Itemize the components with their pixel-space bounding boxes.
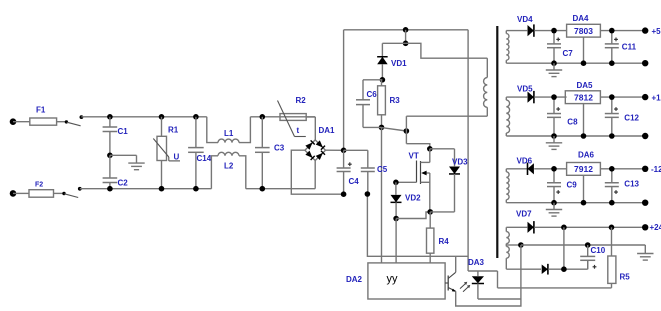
capacitor C2: [103, 155, 129, 188]
svg-text:7912: 7912: [574, 164, 593, 174]
svg-text:+5: +5: [652, 27, 661, 36]
capacitor C1: [103, 117, 129, 156]
diode VD1: [377, 43, 407, 80]
node C2 bottom: [107, 186, 113, 192]
svg-text:VD2: VD2: [405, 194, 421, 203]
diode VD3: [430, 149, 468, 212]
wire DC minus path: [367, 194, 468, 256]
capacitor C6: [356, 80, 377, 128]
node VD1 rail: [403, 27, 409, 33]
wire DA2 pin1: [381, 127, 383, 263]
zener VD2: [391, 182, 422, 218]
node row A: [561, 266, 567, 272]
svg-text:L2: L2: [224, 162, 234, 171]
node C1-C2 mid: [107, 153, 136, 159]
svg-text:C10: C10: [591, 246, 606, 255]
wire snubber return: [406, 116, 429, 149]
svg-text:C2: C2: [118, 179, 129, 188]
opto LED DA3: [468, 258, 498, 299]
wire top rail right: [250, 116, 315, 118]
wire LED box bottom: [478, 298, 521, 300]
resistor R5: [608, 227, 630, 288]
wire top rail left: [81, 116, 206, 118]
svg-text:R2: R2: [296, 96, 307, 105]
input terminal N: [10, 190, 29, 197]
svg-text:F1: F1: [36, 106, 46, 115]
node R1 bottom: [159, 186, 165, 192]
resistor R3: [378, 80, 401, 128]
wire R5 return: [498, 287, 612, 289]
switch S1: [65, 115, 84, 126]
node C10 top: [585, 242, 591, 248]
fuse F2: [29, 182, 64, 198]
transformer core: [496, 26, 498, 258]
svg-text:VD7: VD7: [516, 210, 532, 219]
svg-text:VT: VT: [409, 152, 419, 161]
capacitor C3: [255, 117, 285, 189]
capacitor C14: [188, 117, 212, 189]
node VD2 top: [393, 180, 399, 186]
node w4 tap: [518, 242, 524, 248]
svg-text:R1: R1: [168, 126, 179, 135]
transformer primary: [484, 58, 488, 116]
svg-text:C5: C5: [377, 165, 388, 174]
svg-text:R4: R4: [439, 237, 450, 246]
wire +310V riser: [343, 30, 345, 151]
earth ground: [128, 155, 144, 169]
wire bottom rail right: [246, 188, 315, 190]
svg-text:VD4: VD4: [517, 15, 533, 24]
svg-text:F2: F2: [35, 182, 43, 189]
thermistor R2: [278, 96, 316, 137]
fuse F1: [30, 106, 66, 126]
wire VD1 stub: [405, 30, 407, 44]
wire row A right: [548, 268, 588, 270]
svg-text:R5: R5: [620, 273, 631, 282]
svg-text:DA4: DA4: [573, 14, 590, 23]
svg-text:C14: C14: [197, 154, 212, 163]
wire LED box right: [497, 271, 499, 288]
svg-text:t: t: [297, 126, 300, 135]
diode VD8: [542, 264, 548, 275]
wire bridge bottom to rail: [314, 161, 316, 189]
wire +24 rail: [534, 226, 645, 228]
node VD1 top: [382, 41, 408, 47]
wire VD2 to source: [396, 212, 430, 219]
wire emitter: [456, 291, 521, 306]
svg-text:DA1: DA1: [319, 126, 336, 135]
node C5 bottom: [365, 191, 371, 197]
svg-text:7803: 7803: [574, 26, 593, 36]
svg-text:DA2: DA2: [346, 275, 363, 284]
wire DA2 pin2: [395, 219, 397, 263]
inductor L2: [211, 152, 245, 188]
node C1 top: [107, 114, 113, 120]
inductor L1: [207, 117, 251, 143]
wire R2 to bridge: [314, 117, 316, 140]
svg-text:-12: -12: [651, 165, 661, 174]
output row +12 (winding, diode VD5, regulator DA5 7812, C8, C12): [506, 81, 661, 149]
switch S2: [62, 187, 81, 198]
svg-text:+12: +12: [652, 93, 661, 102]
svg-text:VD3: VD3: [452, 158, 468, 167]
svg-text:DA6: DA6: [578, 151, 595, 160]
wire link 563: [563, 227, 565, 269]
wire collector: [455, 256, 457, 272]
node VD7-C10 link top: [561, 225, 567, 231]
svg-text:C1: C1: [118, 127, 129, 136]
wire tap riser: [520, 245, 522, 299]
capacitor C4: [337, 150, 360, 194]
node drain: [427, 146, 433, 152]
svg-text:L1: L1: [224, 129, 234, 138]
wire top mid rail: [344, 29, 469, 31]
node C14 top: [193, 114, 199, 120]
svg-text:7812: 7812: [574, 93, 593, 103]
svg-text:U: U: [174, 153, 180, 162]
wire diode row A: [506, 268, 541, 270]
svg-text:VD6: VD6: [517, 157, 533, 166]
svg-text:уу: уу: [387, 273, 399, 285]
node VD2 bottom: [393, 216, 399, 222]
resistor R4: [427, 212, 450, 263]
node C6 R3 bottom: [363, 125, 406, 131]
svg-text:VD1: VD1: [391, 59, 407, 68]
node C3 bottom: [260, 186, 266, 192]
node R5 top: [609, 225, 615, 231]
node C3 top: [260, 114, 266, 120]
phototransistor: [445, 272, 456, 291]
varistor R1: [153, 117, 180, 189]
wire w4 tap: [506, 244, 521, 246]
wire bridge minus loop: [291, 150, 343, 194]
transistor VT: [409, 152, 430, 212]
svg-text:DA3: DA3: [468, 258, 485, 267]
output +24 terminal: [642, 223, 661, 232]
svg-text:+24: +24: [650, 223, 661, 232]
svg-text:C12: C12: [624, 113, 639, 122]
svg-text:VD5: VD5: [517, 84, 533, 93]
wire gate: [396, 181, 417, 183]
node R1 top: [159, 114, 165, 120]
svg-text:C9: C9: [567, 181, 578, 190]
capacitor C10: [580, 245, 606, 269]
svg-text:C7: C7: [563, 49, 574, 58]
svg-text:C3: C3: [274, 144, 285, 153]
diode VD7: [506, 210, 534, 234]
ic DA2: [346, 263, 445, 299]
svg-text:C6: C6: [367, 90, 378, 99]
wire bridge plus: [326, 149, 344, 151]
svg-text:R3: R3: [390, 96, 401, 105]
svg-text:C13: C13: [624, 180, 639, 189]
svg-text:C8: C8: [567, 118, 578, 127]
wire right long vertical: [467, 30, 469, 271]
capacitor C5: [344, 150, 388, 194]
wire drain: [429, 149, 431, 163]
ground row4: [637, 245, 653, 260]
node source: [427, 209, 433, 215]
node snubber return: [404, 128, 410, 134]
wire clamp to primary top: [406, 43, 488, 58]
node C4 top: [341, 148, 347, 154]
input terminal L: [10, 118, 30, 125]
node C6 R3 top: [363, 77, 385, 83]
svg-text:DA5: DA5: [577, 81, 594, 90]
svg-text:C4: C4: [349, 177, 360, 186]
svg-text:C11: C11: [622, 43, 637, 52]
wire C10 bottom lead: [587, 260, 589, 269]
node C14 bottom: [193, 186, 199, 192]
wire tap rail: [521, 244, 645, 246]
wire bottom rail left: [80, 188, 212, 190]
output row -12 (winding, diode VD6, regulator DA6 7912, C9, C13): [506, 151, 661, 217]
wire primary bottom stub: [406, 115, 487, 117]
output row +5 (winding, diode VD4, regulator DA4 7803, C7, C11): [506, 14, 661, 77]
winding w4: [506, 227, 509, 269]
opto light arrows: [460, 282, 470, 292]
node C4 bottom: [341, 191, 347, 197]
rectifier bridge DA1: [305, 126, 335, 161]
